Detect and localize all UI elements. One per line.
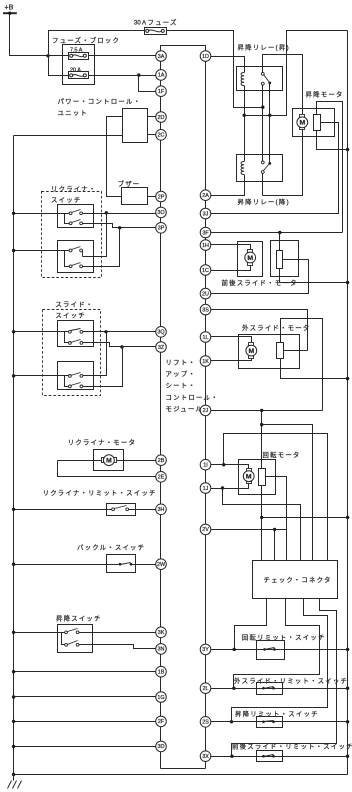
relay K1 armature blade — [264, 75, 270, 83]
fuse F1 30A — [145, 28, 167, 35]
svg-text:1C: 1C — [202, 268, 209, 274]
junction right bus R1 — [346, 148, 349, 151]
pin 1B — [156, 666, 167, 677]
junction K1 coil / bus loop — [243, 114, 246, 117]
svg-text:アップ・: アップ・ — [166, 370, 196, 378]
relay K2 coil — [241, 162, 244, 175]
svg-text:コントロール・: コントロール・ — [166, 393, 219, 401]
svg-text:2U: 2U — [202, 291, 209, 297]
wire K1 bottom contact down to K2 — [262, 85, 264, 161]
pin 3Z — [156, 342, 167, 353]
wire 2V branch to check connector — [274, 530, 276, 561]
wire K1 common down to K2 common — [269, 83, 271, 164]
pin 1I — [200, 459, 211, 470]
fr slide limit switch box — [257, 751, 283, 762]
contact K2 bottom — [261, 171, 264, 174]
ground bus left side — [13, 136, 15, 781]
wire branch to 20A fuse — [49, 56, 69, 76]
recliner motor box — [94, 450, 124, 471]
module bottom tie wire — [161, 768, 206, 770]
ground line bottom — [14, 774, 348, 776]
svg-text:リクライナ・リミット・スイッチ: リクライナ・リミット・スイッチ — [43, 489, 157, 497]
wire M1 bottom to relay K2 — [263, 130, 303, 196]
pin 2D — [156, 112, 167, 123]
wire ground bus to pin 2F — [14, 721, 156, 723]
rotation limit switch box — [257, 641, 285, 660]
svg-text:3F: 3F — [202, 230, 209, 236]
fuse F2 7.5A — [69, 53, 89, 60]
svg-text:2B: 2B — [158, 458, 165, 464]
ground symbol — [13, 775, 15, 781]
junction right bus R3 — [346, 377, 349, 380]
junction recliner 3O net — [105, 211, 108, 214]
contact K1 bottom — [261, 82, 264, 85]
wire pin 1D to relay up coil — [211, 57, 245, 73]
wire U1 to pin 2C — [148, 134, 156, 136]
contact recliner down D — [69, 265, 72, 268]
module right bus — [205, 46, 207, 769]
junction node at fuse feed — [46, 54, 49, 57]
breaker R2 — [277, 251, 283, 269]
recliner switch down box — [58, 241, 94, 273]
wire lift down contact to pin 3N — [79, 645, 156, 649]
pin 2V — [200, 524, 211, 535]
svg-text:パワー・コントロール・: パワー・コントロール・ — [58, 98, 142, 106]
wire R4 top lead down — [261, 411, 263, 469]
wire lift up contact to pin 3K — [79, 632, 156, 634]
wire ground bus to recliner switch down — [14, 250, 70, 252]
pin 1K — [200, 356, 211, 367]
wire ground bus to pin 1B — [14, 671, 156, 673]
wire R3 bottom to right bus — [281, 359, 348, 379]
wire check connector to rotation limit switch — [235, 599, 267, 650]
junction right bus 2S — [346, 720, 349, 723]
svg-text:2W: 2W — [157, 562, 166, 568]
module left bus — [160, 46, 162, 769]
contact fr slide limit switch — [262, 755, 265, 758]
breaker R2 enclosure — [271, 241, 299, 277]
svg-text:2F: 2F — [158, 719, 165, 725]
svg-text:3Q: 3Q — [157, 330, 164, 336]
wire R1 top to 3F bus — [317, 102, 343, 233]
svg-text:2D: 2D — [158, 115, 165, 121]
breaker R3 — [277, 343, 284, 359]
pin 3Q — [156, 327, 167, 338]
recliner switch dashed enclosure — [42, 192, 102, 278]
buzzer BZ box — [122, 188, 148, 205]
contact recliner up B — [69, 222, 72, 225]
outer slide limit switch box — [257, 683, 283, 695]
svg-text:M: M — [247, 255, 253, 262]
wire recliner limit switch to pin 3H — [129, 509, 156, 511]
pin 1J — [200, 483, 211, 494]
wire pin 2S row — [211, 721, 348, 723]
contact buckle switch closed — [119, 563, 122, 566]
wire 20A fuse to pin 1A — [89, 75, 156, 77]
recliner motor M2 — [102, 458, 104, 463]
wire recliner motor to pin 2E — [58, 460, 102, 462]
check connector box — [253, 561, 338, 599]
svg-text:前後スライド・リミット・スイッチ: 前後スライド・リミット・スイッチ — [232, 741, 352, 750]
pin 1G — [156, 692, 167, 703]
svg-text:3S: 3S — [202, 307, 209, 313]
svg-text:1D: 1D — [202, 54, 209, 60]
wire U1 to pin 2D — [148, 116, 156, 118]
wire K2 bottom contact to lift motor — [262, 174, 264, 196]
wire pin 3X row — [211, 756, 348, 758]
pin 3S — [200, 304, 211, 315]
pin 3X — [200, 751, 211, 762]
relay K2 armature blade — [264, 164, 270, 171]
pin 2J — [200, 405, 211, 416]
contact lift limit switch — [262, 721, 265, 724]
wire 1J net to check connector — [223, 489, 301, 561]
svg-text:3K: 3K — [158, 630, 165, 636]
svg-text:モジュール: モジュール — [166, 405, 204, 413]
svg-text:1I: 1I — [203, 463, 208, 469]
junction 1I branch — [222, 463, 225, 466]
svg-text:昇降スイッチ: 昇降スイッチ — [56, 614, 102, 623]
wire pin 1K to M3 bottom — [211, 359, 252, 361]
svg-text:ユニット: ユニット — [58, 110, 88, 117]
contact recliner up A — [69, 212, 72, 215]
internal tie C-D — [65, 251, 70, 267]
junction 30A feed on NC wire — [261, 106, 264, 109]
junction slide 3Q net — [104, 330, 107, 333]
pin 2E — [156, 472, 167, 483]
svg-text:昇降リレー(昇): 昇降リレー(昇) — [238, 43, 290, 52]
wire ground bus to slide switch fwd — [14, 331, 70, 333]
contact slide rear D — [69, 385, 72, 388]
wire +B feed down — [10, 14, 69, 56]
svg-text:昇降リレー(降): 昇降リレー(降) — [238, 197, 290, 206]
junction 2J to breaker R4 — [260, 409, 263, 412]
wire R4 side to 2V net — [266, 477, 287, 561]
wire pin 1C to M2 bottom — [211, 266, 251, 271]
wire ground bus to pin 1G — [14, 696, 156, 698]
wire pin 3S to breaker R3 side — [211, 310, 308, 351]
wire check connector to outer slide limit switch — [234, 599, 320, 689]
wire slide D up to 3Z net — [83, 347, 123, 387]
junction right bus 3X — [346, 755, 349, 758]
relay K1 common point — [268, 82, 271, 85]
contact outer slide limit switch — [262, 687, 265, 690]
lift motor box — [293, 109, 335, 137]
contact recliner down C — [69, 249, 72, 252]
fuse block outline — [63, 45, 95, 85]
wire contact A to pin 3O — [83, 213, 156, 215]
pin 1F — [156, 86, 167, 97]
lift limit switch box — [257, 717, 283, 728]
wire 2J net to check connector — [262, 425, 313, 561]
svg-text:1H: 1H — [202, 243, 209, 249]
svg-text:1J: 1J — [203, 486, 209, 492]
svg-text:M: M — [106, 458, 112, 465]
svg-text:1A: 1A — [158, 73, 165, 79]
svg-text:チェック・コネクタ: チェック・コネクタ — [264, 575, 332, 584]
wire R2 side to pin 2U — [211, 260, 309, 294]
svg-text:ブザー: ブザー — [118, 179, 141, 188]
wire branch to pin 1F — [139, 76, 156, 92]
pin 2B — [156, 455, 167, 466]
svg-text:スイッチ: スイッチ — [51, 196, 81, 204]
contact lift down — [65, 643, 68, 646]
junction right bus R2 — [346, 281, 349, 284]
svg-text:M: M — [299, 120, 305, 127]
wire pin 3F to feed — [211, 232, 343, 234]
wire 1I net to check connector — [224, 434, 328, 561]
pin 3J — [200, 208, 211, 219]
svg-text:1F: 1F — [158, 89, 165, 95]
wire buckle switch to pin 2W — [131, 564, 156, 566]
fr slide motor box — [238, 242, 263, 277]
wire pin 2V row — [211, 529, 287, 531]
power control unit U1 box — [123, 109, 148, 143]
svg-text:2V: 2V — [202, 527, 209, 533]
pin 2L — [200, 683, 211, 694]
wire 30A fuse to relay feed, down right side — [167, 31, 263, 108]
svg-text:2S: 2S — [202, 720, 209, 726]
pin 2F — [156, 716, 167, 727]
slide switch rear box — [58, 362, 94, 390]
wire check connector to fr slide limit switch — [232, 599, 337, 757]
wire common loop to right bus — [245, 31, 348, 116]
wire U1 to buzzer — [107, 117, 123, 197]
svg-text:シート・: シート・ — [166, 383, 196, 390]
wire contact B to pin 3P — [83, 224, 156, 228]
wire pin 1H to M2 top — [211, 245, 251, 250]
slide switch fwd box — [58, 321, 94, 347]
svg-text:1B: 1B — [158, 670, 165, 676]
contact slide fwd A — [69, 330, 72, 333]
wire ground bus to recliner switch up — [14, 213, 70, 215]
svg-text:3D: 3D — [158, 744, 165, 750]
breaker R1 — [314, 115, 321, 131]
lift relay up K1 box — [237, 67, 283, 91]
contact K2 top — [261, 161, 264, 164]
right feed bus — [347, 31, 349, 775]
pin 3F — [200, 227, 211, 238]
wire slide A to pin 3Q — [83, 331, 156, 333]
svg-text:2J: 2J — [203, 408, 209, 414]
pin 3K — [156, 627, 167, 638]
wire check connector to lift limit switch — [232, 599, 328, 722]
pin 2P — [156, 191, 167, 202]
module top tie wire — [161, 46, 206, 51]
svg-text:リクライナ・モータ: リクライナ・モータ — [68, 438, 136, 447]
wire branch to 30A fuse — [49, 31, 145, 56]
junction 2V to check connector — [273, 528, 276, 531]
fr slide motor M2 — [248, 250, 253, 253]
contact slide fwd B — [69, 342, 72, 345]
svg-text:回転モータ: 回転モータ — [263, 450, 301, 459]
pin 2A — [200, 190, 211, 201]
pin 2W — [156, 559, 167, 570]
junction 3F to breaker R2 — [278, 231, 281, 234]
wire K1 coil bottom to common net — [244, 86, 246, 162]
wire pin 1J to M4 bottom — [211, 484, 249, 489]
wire R3 top to 2J net — [281, 319, 323, 411]
pin 2C — [156, 130, 167, 141]
svg-text:フューズ: フューズ — [148, 18, 178, 27]
contact rotation limit switch — [263, 648, 266, 651]
wire R4 bottom to right bus and check connector — [261, 486, 263, 561]
wire pin 1I to M4 top — [211, 465, 249, 469]
junction recliner 3P net — [118, 226, 121, 229]
wire pin 2J row — [211, 410, 323, 412]
relay K2 common point — [268, 162, 271, 165]
svg-text:20 A: 20 A — [70, 68, 81, 74]
svg-text:M: M — [248, 348, 254, 355]
svg-text:2L: 2L — [203, 686, 209, 692]
pin 1A — [156, 70, 167, 81]
battery terminal +B — [3, 12, 17, 14]
rotation motor box — [239, 460, 276, 495]
lift switch box — [58, 625, 93, 653]
contact slide rear C — [69, 375, 72, 378]
wire 7.5A fuse to pin 3A — [89, 55, 156, 57]
outer slide motor box — [239, 335, 300, 369]
internal tie slide A-B — [65, 332, 69, 343]
junction right bus R4 — [346, 516, 349, 519]
wire recliner motor to pin 2B — [117, 460, 156, 462]
contact lift up — [65, 631, 68, 634]
pin 3N — [156, 644, 167, 655]
svg-text:外スライド・リミット・スイッチ: 外スライド・リミット・スイッチ — [234, 676, 348, 685]
wire contact D up to 3P net — [83, 228, 120, 267]
rotation motor M4 — [247, 469, 252, 472]
ground bus feeds power control unit — [14, 135, 123, 137]
svg-text:リフト・: リフト・ — [166, 359, 196, 367]
svg-text:3H: 3H — [158, 507, 165, 513]
svg-text:外スライド・モータ: 外スライド・モータ — [242, 323, 310, 332]
internal tie A-B — [65, 214, 70, 224]
wire K2 coil to pin 2A — [211, 175, 245, 196]
svg-text:スイッチ: スイッチ — [55, 311, 85, 319]
wire ground bus to buckle switch — [14, 564, 119, 566]
pin 3O — [156, 207, 167, 218]
contact recliner limit — [112, 508, 115, 511]
junction right bus 2L — [346, 687, 349, 690]
pin 1L — [200, 332, 211, 343]
wire R1 side to pin 3J — [211, 123, 339, 214]
recliner limit switch box — [107, 504, 136, 516]
wire pin 1L to M3 top — [211, 337, 252, 343]
svg-text:2E: 2E — [158, 475, 165, 481]
svg-text:3N: 3N — [158, 647, 165, 653]
wire buzzer to pin 2P — [148, 196, 156, 198]
breaker R4 — [259, 469, 266, 486]
pin 1D — [200, 51, 211, 62]
wire ground bus to lift switch — [14, 632, 65, 634]
slide switch dashed enclosure — [43, 310, 101, 396]
svg-text:3J: 3J — [203, 211, 209, 217]
svg-text:昇降モータ: 昇降モータ — [306, 89, 344, 98]
svg-text:+B: +B — [5, 5, 14, 12]
lift motor M1 — [300, 115, 305, 118]
svg-text:3Z: 3Z — [158, 345, 165, 351]
lift relay down K2 box — [237, 155, 283, 182]
pin 3P — [156, 223, 167, 234]
svg-text:3O: 3O — [157, 210, 164, 216]
svg-text:2C: 2C — [158, 133, 165, 139]
pin 2U — [200, 288, 211, 299]
internal tie slide C-D — [65, 376, 69, 387]
pin 3H — [156, 504, 167, 515]
svg-text:1G: 1G — [157, 695, 164, 701]
pin 3D — [156, 741, 167, 752]
wire contact C up to 3O net — [83, 213, 107, 257]
buckle switch box — [107, 555, 136, 573]
fuse F3 20A — [69, 72, 89, 79]
svg-text:3Y: 3Y — [202, 647, 209, 653]
svg-text:3P: 3P — [158, 226, 165, 232]
svg-text:3X: 3X — [202, 754, 209, 760]
pin 3Y — [200, 644, 211, 655]
svg-text:3A: 3A — [158, 54, 165, 60]
svg-text:1K: 1K — [202, 359, 209, 365]
junction right bus 3Y — [346, 648, 349, 651]
wire pin 2L row — [211, 688, 348, 690]
junction R4 top to check connector — [260, 423, 263, 426]
junction slide 3Z net — [120, 345, 123, 348]
wire K1 NO contact to lift motor — [263, 55, 303, 115]
wire R2 bottom to right bus — [280, 269, 348, 283]
wire slide B to pin 3Z — [83, 343, 156, 347]
svg-text:スライド・: スライド・ — [55, 300, 93, 308]
svg-text:M: M — [246, 474, 252, 481]
relay K1 coil — [241, 73, 244, 86]
pin 1H — [200, 240, 211, 251]
svg-text:30 A: 30 A — [134, 21, 146, 27]
wire pin 3Y row — [211, 649, 348, 651]
wire ground bus to recliner limit switch — [14, 509, 114, 511]
wire ground bus to pin 3D — [14, 746, 156, 748]
pin 1C — [200, 265, 211, 276]
junction 1J branch — [221, 486, 224, 489]
pin 3A — [156, 51, 167, 62]
wire R1 bottom to right bus — [317, 131, 348, 150]
contact K1 top — [261, 73, 264, 76]
outer slide motor M3 — [249, 343, 254, 346]
svg-text:1L: 1L — [203, 335, 209, 341]
svg-text:2A: 2A — [202, 193, 209, 199]
svg-text:バックル・スイッチ: バックル・スイッチ — [77, 543, 145, 551]
svg-text:フューズ・ブロック: フューズ・ブロック — [52, 36, 120, 45]
wire R3 side lead — [284, 350, 308, 352]
pin 2S — [200, 717, 211, 728]
wire R2 top lead — [279, 233, 281, 251]
internal tie lift up-down — [62, 633, 65, 645]
wire ground bus to slide switch rear — [14, 375, 70, 377]
recliner switch up box — [58, 205, 94, 228]
wire slide C up to 3Q net — [83, 332, 107, 376]
junction common loop — [268, 114, 271, 117]
svg-text:2P: 2P — [158, 194, 165, 200]
junction on 1A feed — [137, 73, 140, 76]
